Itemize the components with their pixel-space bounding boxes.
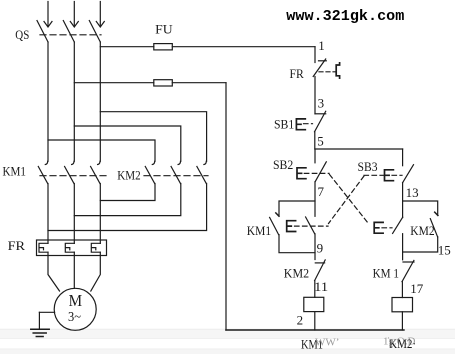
FR heater element pole 1	[39, 243, 48, 252]
wire SB3 to NC contact	[402, 183, 404, 218]
wire KM2 pole 3 return to L1	[48, 184, 207, 231]
coil KM2	[392, 298, 413, 312]
fuse FU2	[154, 80, 173, 86]
wire L2 to fuse FU2	[74, 82, 154, 84]
svg-text:15: 15	[438, 242, 451, 257]
svg-text:5: 5	[317, 133, 324, 148]
svg-text:SB3: SB3	[358, 159, 378, 174]
ground wire from motor	[39, 311, 54, 313]
wire fuse FU1 to node 1	[172, 46, 315, 48]
FR trip link (dashed)	[319, 71, 336, 73]
QS mechanical link (dashed)	[40, 34, 101, 36]
wire KM2 NC to coil KM1	[314, 281, 316, 298]
contactor KM2 main contact pole 3	[197, 161, 206, 183]
svg-text:KM2: KM2	[410, 223, 434, 238]
wire KM2 aux branch bottom	[403, 237, 438, 252]
wire right rail vertical	[225, 83, 227, 330]
contactor KM1 main contact pole 3	[91, 161, 100, 183]
FR trip actuator bracket	[336, 63, 339, 78]
wire node1 vertical	[314, 47, 316, 63]
supply line L2 with arrow	[70, 2, 78, 28]
wire KM1 aux branch bottom	[279, 235, 315, 253]
faint watermark band lower	[0, 329, 455, 354]
wire coil KM1 to bottom rail	[314, 312, 316, 330]
svg-text:KM1: KM1	[247, 223, 271, 238]
wire SB2 to NC contact	[314, 182, 316, 217]
pushbutton SB3 (NO)	[364, 165, 414, 183]
contactor KM1 main contact pole 2	[65, 161, 74, 183]
svg-text:3~: 3~	[68, 309, 81, 324]
KM2 main contacts link (dashed)	[144, 175, 208, 177]
svg-text:13: 13	[406, 185, 419, 200]
wire FR to node 3	[314, 77, 316, 114]
svg-text:KM2·: KM2·	[389, 336, 416, 351]
SB3 NC contact in KM1 branch	[287, 217, 328, 234]
disconnect switch QS pole 1 blade	[37, 21, 48, 43]
FR heater element pole 3	[91, 243, 100, 252]
pushbutton SB1 (NC)	[296, 111, 325, 132]
svg-text:17: 17	[410, 281, 424, 296]
wire node5 to SB2	[314, 149, 316, 163]
wire L3 vertical lower	[99, 184, 101, 244]
disconnect switch QS pole 3 blade	[89, 21, 100, 43]
wire L3 branch to KM2 pole 3	[100, 112, 206, 162]
mechanical link SB3 to KM1-branch NC (dashed diagonal)	[329, 176, 365, 224]
svg-text:KM 1: KM 1	[373, 265, 399, 280]
contactor KM1 main contact pole 1	[38, 161, 47, 183]
svg-text:2: 2	[297, 313, 304, 328]
FR NC contact (control)	[313, 59, 326, 77]
contactor KM1 auxiliary NO contact	[270, 213, 279, 235]
svg-text:KM2: KM2	[284, 266, 309, 281]
wire coil KM2 to bottom rail	[401, 312, 403, 330]
wire L1 to motor	[48, 252, 60, 291]
svg-text:11: 11	[314, 279, 328, 294]
wire fuse FU2 to right rail	[172, 82, 226, 84]
wire NC to KM1 NC	[402, 234, 404, 260]
wire KM1 NC to coil KM2	[401, 282, 403, 298]
supply line L1 with arrow	[44, 2, 52, 28]
svg-text:FR: FR	[8, 238, 26, 253]
wire KM2 pole 1 return to L3	[100, 184, 155, 201]
pushbutton SB2 (NO)	[297, 162, 329, 182]
svg-text:WW’: WW’	[315, 337, 339, 349]
wire SB1 to node 5	[314, 132, 316, 149]
wire node5 to SB3	[402, 149, 404, 166]
wire L2 to motor	[73, 252, 75, 288]
svg-text:3: 3	[318, 96, 325, 111]
wire KM2 aux branch top	[403, 201, 438, 215]
KM1 main contacts link (dashed)	[40, 175, 106, 177]
motor M 3~	[54, 288, 96, 330]
ground	[31, 312, 49, 336]
wire L2 branch to KM2 pole 2	[74, 126, 181, 161]
contactor KM1 NC interlock contact	[402, 260, 414, 281]
coil KM1	[304, 297, 324, 311]
thermal relay FR heater box	[37, 240, 107, 256]
wire L1 vertical lower	[47, 184, 49, 244]
svg-text:7: 7	[318, 184, 325, 199]
contactor KM2 NC interlock contact	[315, 260, 326, 281]
wire node 5 horizontal	[315, 148, 403, 150]
contactor KM2 auxiliary NO contact	[430, 212, 438, 237]
svg-text:SB1: SB1	[274, 117, 294, 132]
FR heater element pole 2	[65, 243, 74, 252]
svg-text:1: 1	[318, 38, 325, 53]
mechanical link SB2 to KM2-branch NC (dashed diagonal)	[330, 175, 370, 225]
fuse FU1	[154, 44, 173, 50]
wire KM2 pole 2 return to L2	[74, 184, 181, 216]
wire NC to node 9	[314, 234, 316, 260]
wire L1 branch to KM2 pole 1	[48, 140, 155, 161]
svg-text:www.321gk.com: www.321gk.com	[286, 9, 404, 25]
svg-text:FU: FU	[155, 21, 173, 36]
svg-text:9: 9	[317, 241, 324, 256]
contactor KM2 main contact pole 1	[145, 161, 154, 183]
svg-text:KM1: KM1	[3, 163, 27, 178]
svg-text:SB2: SB2	[273, 157, 293, 172]
wire L2 vertical lower	[73, 184, 75, 244]
wire KM1 aux branch top	[279, 201, 315, 216]
wire L3 vertical upper	[99, 42, 101, 161]
svg-text:M: M	[69, 291, 83, 310]
wire bottom rail	[226, 329, 404, 331]
svg-text:QS: QS	[15, 27, 29, 42]
wire L3 to fuse FU1	[100, 46, 154, 48]
svg-text:KM2: KM2	[117, 167, 140, 182]
wire L3 to motor	[91, 252, 101, 291]
supply line L3 with arrow	[96, 2, 104, 28]
contactor KM2 main contact pole 2	[171, 161, 180, 183]
svg-text:FR: FR	[290, 66, 305, 81]
disconnect switch QS pole 2 blade	[63, 21, 74, 43]
wire L2 vertical upper	[73, 42, 75, 161]
SB2 NC contact in KM2 branch	[374, 217, 403, 233]
wire L1 vertical upper	[47, 42, 49, 161]
